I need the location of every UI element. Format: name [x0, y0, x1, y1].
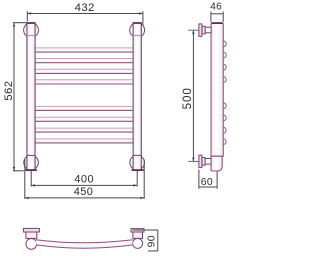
dimension 500: [181, 30, 199, 161]
rung group 1 (4 horizontal tubes): [36, 47, 133, 84]
rung stubs (bumps) on side tube: [223, 41, 226, 145]
dimension 60: [199, 170, 217, 189]
side tube top cap: [211, 23, 223, 25]
dimension 450: [25, 160, 144, 200]
dimension 400: [31, 171, 137, 187]
left collector tube: [27, 23, 35, 171]
right tube top cap: [133, 22, 142, 24]
svg-text:90: 90: [146, 235, 157, 247]
right collector tube: [133, 23, 141, 171]
side top wall bracket: [199, 24, 211, 37]
wall bracket top-right circle: [130, 23, 145, 38]
bottom view bowed towel tube: [36, 240, 133, 249]
side tube bottom cap: [211, 156, 222, 171]
wall bracket bottom-right circle: [130, 155, 145, 170]
side collector tube body: [211, 23, 223, 157]
svg-text:46: 46: [210, 2, 222, 13]
bottom view left bracket: [23, 228, 39, 249]
bottom-left bracket top line: [26, 154, 35, 156]
bottom view right bracket: [131, 229, 144, 249]
svg-text:500: 500: [181, 87, 194, 109]
bottom-right bracket top line: [133, 154, 142, 156]
dimension 562: [3, 23, 27, 171]
svg-text:450: 450: [74, 186, 94, 198]
top-left bracket collar line: [26, 35, 35, 37]
rung group 2 (4 horizontal tubes): [36, 106, 133, 143]
side tube seam line: [211, 155, 223, 157]
left tube bottom cap: [25, 169, 37, 171]
top-right bracket collar line: [133, 35, 142, 37]
dimension 432: [27, 2, 143, 25]
svg-text:562: 562: [3, 80, 15, 100]
wall bracket top-left circle: [24, 23, 39, 38]
dimension 90: [133, 230, 158, 251]
right tube bottom cap: [132, 169, 144, 171]
wall bracket bottom-left circle: [24, 155, 39, 170]
dimension 46: [210, 2, 223, 22]
side bottom wall bracket: [199, 155, 211, 168]
svg-text:432: 432: [75, 2, 95, 14]
left tube top cap: [26, 22, 35, 24]
svg-text:400: 400: [74, 174, 94, 186]
